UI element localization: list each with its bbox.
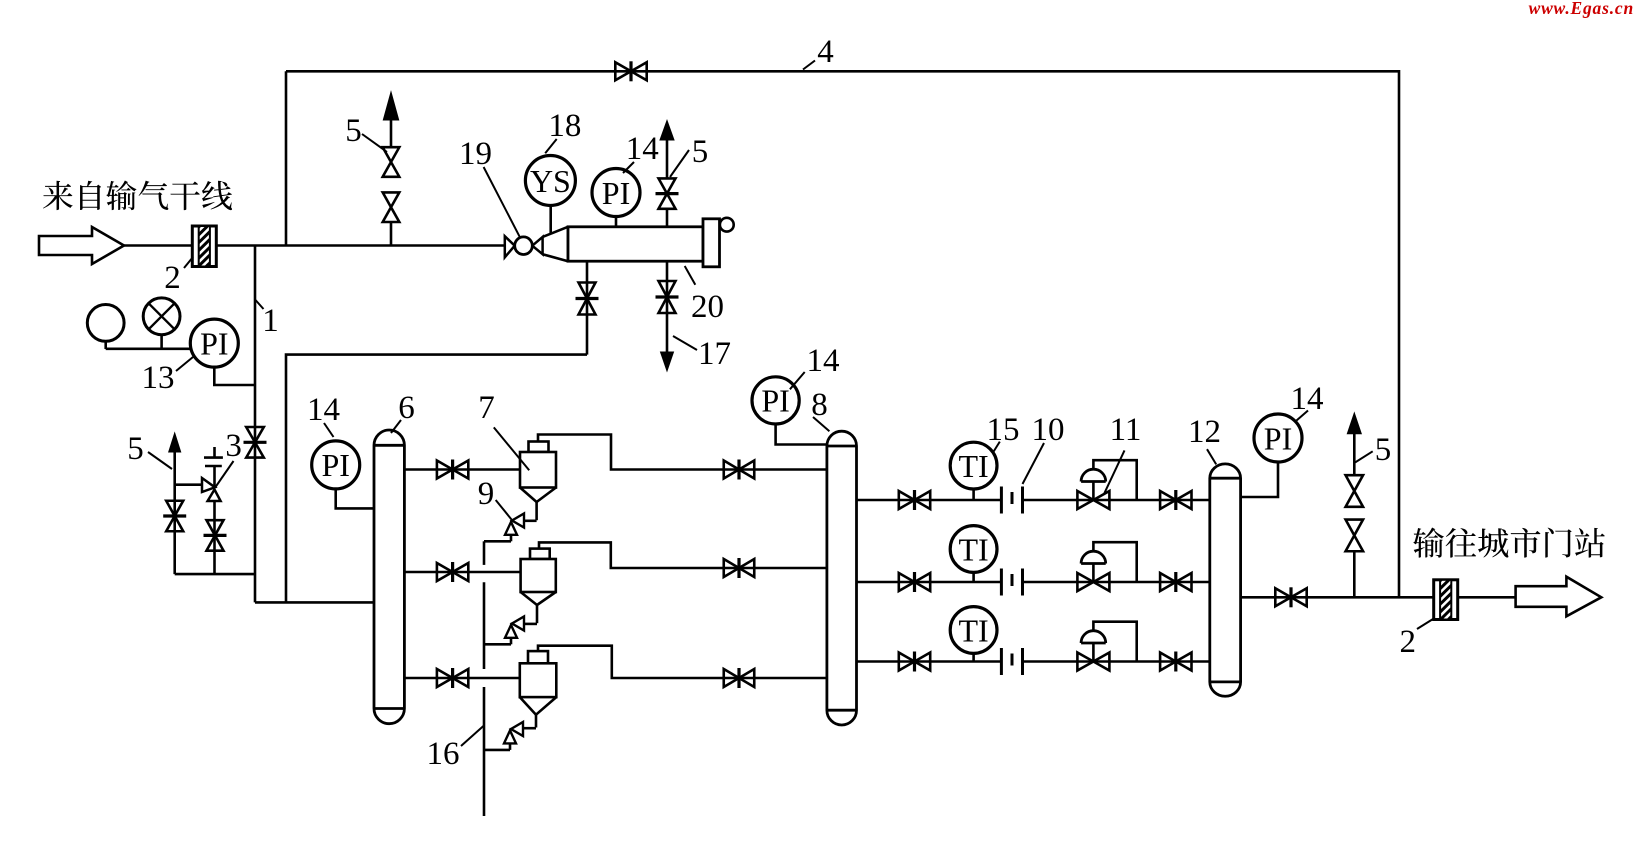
label 16 bbox=[427, 726, 484, 772]
bypass riser bbox=[285, 71, 288, 245]
label 9 bbox=[478, 476, 512, 520]
svg-text:7: 7 bbox=[478, 390, 495, 426]
label 13 bbox=[142, 357, 194, 396]
outlet vent line 5 bbox=[1353, 434, 1356, 598]
pressure gauge plain circle bbox=[87, 305, 124, 342]
svg-text:3: 3 bbox=[225, 428, 242, 464]
instrument PI 14 (manifold 12) bbox=[1254, 414, 1302, 462]
filter 7 unit 3 bbox=[484, 651, 556, 750]
label 5 (top-left) bbox=[345, 113, 387, 152]
insulating joint 2 (inlet) bbox=[192, 214, 216, 284]
relief angle valve 3 bbox=[202, 478, 221, 501]
svg-text:15: 15 bbox=[987, 412, 1020, 448]
filter inlet valve row2 bbox=[724, 558, 755, 578]
svg-text:16: 16 bbox=[427, 736, 460, 772]
metering row 3 bbox=[857, 607, 1210, 675]
bypass line 4 bbox=[286, 71, 1399, 597]
separator drain line bbox=[286, 261, 587, 602]
label 14 (manifold 12) bbox=[1291, 381, 1324, 421]
label 14 (separator) bbox=[623, 131, 659, 173]
relief branch 2 line bbox=[213, 501, 216, 574]
branch row 2 pipe bbox=[404, 571, 520, 574]
blowdown arrow 17 bbox=[661, 352, 674, 371]
svg-text:9: 9 bbox=[478, 476, 495, 512]
svg-text:11: 11 bbox=[1110, 412, 1142, 448]
outlet pipe bbox=[1241, 596, 1516, 599]
outlet vent valve lower bbox=[1346, 520, 1364, 552]
safety pilot line with bars bbox=[204, 447, 223, 487]
inlet text 来自输气干线 bbox=[43, 180, 232, 210]
svg-text:14: 14 bbox=[807, 343, 840, 379]
relief header to line 1 bbox=[175, 573, 255, 576]
outlet vent arrow bbox=[1347, 413, 1361, 434]
valve on relief branch 1 bbox=[163, 501, 186, 532]
svg-text:TI: TI bbox=[958, 531, 988, 567]
separator PI stem bbox=[615, 217, 618, 227]
svg-text:YS: YS bbox=[530, 163, 571, 199]
label 1 bbox=[256, 300, 279, 339]
outlet text 输往城市门站 bbox=[1413, 528, 1605, 558]
svg-text:18: 18 bbox=[548, 108, 581, 144]
pipe: line 1 riser down from main line bbox=[255, 246, 374, 603]
gauge with X bbox=[143, 298, 180, 335]
drain collection line 16 bbox=[483, 541, 486, 816]
filter 2 outlet pipe bbox=[539, 542, 827, 568]
blowdown valve 20 bbox=[656, 281, 679, 313]
svg-text:PI: PI bbox=[761, 383, 789, 419]
inlet flow arrow bbox=[39, 227, 124, 264]
separator vent valve bbox=[656, 178, 679, 208]
svg-text:5: 5 bbox=[1375, 432, 1392, 468]
manifold 12 bbox=[1210, 464, 1241, 696]
separator vent arrow bbox=[660, 121, 674, 141]
branch row 1 pipe bbox=[404, 468, 520, 471]
metering row 2 bbox=[857, 526, 1210, 596]
label 12 bbox=[1188, 414, 1221, 464]
manifold 8 bbox=[827, 431, 857, 725]
branch row 3 pipe bbox=[404, 677, 519, 680]
branch row 1 valve bbox=[437, 460, 468, 480]
svg-text:TI: TI bbox=[958, 612, 988, 648]
valve on relief branch 2 bbox=[204, 520, 227, 551]
separator vent line 5 bbox=[666, 140, 669, 227]
svg-text:4: 4 bbox=[817, 34, 834, 70]
label 10 bbox=[1023, 412, 1065, 484]
svg-text:20: 20 bbox=[691, 289, 724, 325]
label 5 (separator) bbox=[670, 134, 708, 177]
label 14 (manifold 6) bbox=[307, 392, 340, 437]
svg-text:17: 17 bbox=[698, 336, 731, 372]
vent line 5 top-left bbox=[390, 120, 393, 246]
label 14 (manifold 8) bbox=[790, 343, 840, 389]
label 18 bbox=[545, 108, 581, 153]
svg-text:13: 13 bbox=[142, 360, 175, 396]
label 3 bbox=[216, 428, 242, 487]
branch row 3 valve bbox=[437, 668, 468, 688]
label 4 bbox=[803, 34, 834, 70]
label 11 bbox=[1104, 412, 1142, 494]
filter 7 unit 1 bbox=[484, 442, 556, 542]
label 2 (inlet joint) bbox=[164, 257, 193, 296]
label 2 (outlet) bbox=[1399, 618, 1434, 660]
svg-text:5: 5 bbox=[345, 113, 362, 149]
separator drain valve bbox=[576, 283, 599, 315]
outlet flow arrow bbox=[1516, 577, 1602, 617]
label 8 bbox=[811, 387, 829, 431]
manifold 12 PI stem bbox=[1241, 462, 1278, 497]
label 5 (relief) bbox=[127, 431, 172, 469]
svg-text:PI: PI bbox=[1264, 420, 1292, 456]
vent valve upper bbox=[383, 147, 400, 177]
instrument PI 14 (separator) bbox=[592, 169, 640, 217]
manifold 8 PI stem bbox=[776, 424, 827, 445]
svg-text:2: 2 bbox=[1399, 624, 1416, 660]
filter 1 outlet pipe bbox=[538, 435, 827, 470]
vent valve lower bbox=[383, 192, 400, 222]
metering row 1 (valves, TI 15, orifice 10, control valve 11) bbox=[857, 442, 1210, 513]
svg-text:PI: PI bbox=[321, 447, 349, 483]
ejector nozzle 19 bbox=[505, 236, 543, 257]
label 6 bbox=[391, 390, 415, 433]
outlet vent valve upper bbox=[1346, 475, 1364, 507]
label 17 bbox=[673, 336, 731, 372]
separator end closure 20 bbox=[703, 218, 734, 267]
vent arrow top-left bbox=[383, 92, 398, 120]
bypass valve on line 4 bbox=[615, 61, 646, 81]
svg-text:12: 12 bbox=[1188, 414, 1221, 450]
station relief vent line 5 bbox=[175, 452, 202, 574]
separator vessel body bbox=[568, 227, 703, 261]
filter inlet valve row1 (to manifold 8) bbox=[724, 460, 755, 480]
filter 3 outlet pipe bbox=[538, 646, 827, 678]
label 19 bbox=[459, 136, 520, 238]
vent arrow (relief) bbox=[169, 433, 181, 452]
YS stem bbox=[549, 206, 552, 234]
svg-text:19: 19 bbox=[459, 136, 492, 172]
label 15 bbox=[987, 412, 1020, 453]
svg-text:PI: PI bbox=[200, 325, 228, 361]
separator blowdown line 17 bbox=[666, 261, 669, 352]
svg-text:PI: PI bbox=[602, 175, 630, 211]
svg-text:5: 5 bbox=[127, 431, 144, 467]
gauge piping (13 cluster) bbox=[106, 335, 255, 385]
pressure indicator PI 13 bbox=[190, 319, 238, 367]
watermark bbox=[1529, 0, 1634, 18]
label 7 bbox=[478, 390, 529, 470]
instrument YS 18 bbox=[525, 156, 575, 206]
valve 3 on line 1 bbox=[244, 427, 267, 458]
svg-text:5: 5 bbox=[692, 134, 709, 170]
svg-text:2: 2 bbox=[164, 260, 181, 296]
label 20 bbox=[685, 266, 724, 325]
insulating joint 2 (outlet) bbox=[1434, 568, 1458, 638]
svg-text:TI: TI bbox=[958, 448, 988, 484]
svg-text:10: 10 bbox=[1032, 412, 1065, 448]
manifold 6 bbox=[374, 430, 404, 724]
filter 7 unit 2 bbox=[484, 549, 556, 645]
filter inlet valve row3 bbox=[724, 668, 755, 688]
svg-text:14: 14 bbox=[626, 131, 659, 167]
label 5 (outlet) bbox=[1355, 432, 1391, 468]
svg-text:www.Egas.cn: www.Egas.cn bbox=[1529, 0, 1634, 18]
branch row 2 valve bbox=[437, 562, 468, 582]
instrument PI 14 (manifold 6) bbox=[312, 441, 360, 489]
svg-text:14: 14 bbox=[307, 392, 340, 428]
main inlet pipe bbox=[124, 244, 505, 247]
outlet valve bbox=[1275, 587, 1306, 607]
instrument PI 14 (manifold 8) bbox=[752, 377, 799, 424]
separator vessel cone bbox=[543, 227, 568, 261]
svg-text:1: 1 bbox=[262, 303, 279, 339]
manifold 6 PI stem bbox=[336, 489, 374, 509]
